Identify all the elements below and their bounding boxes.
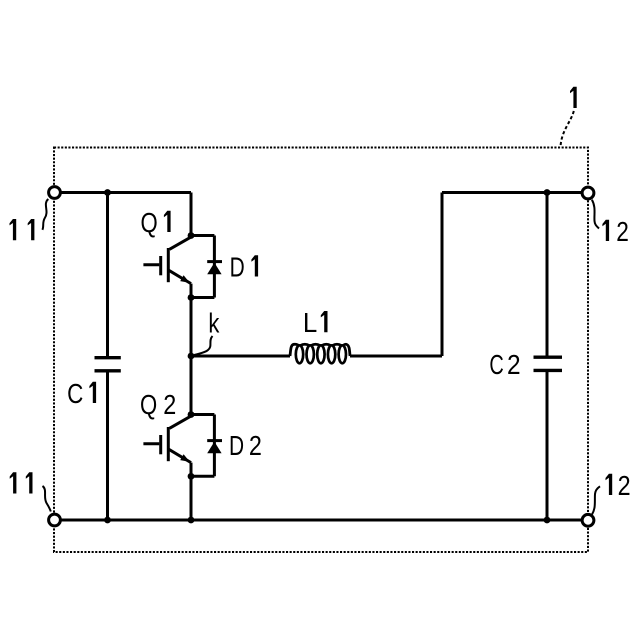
squiggle leader: node k bbox=[193, 336, 213, 356]
wire: Q2 emitter to bottom rail bbox=[190, 463, 193, 520]
squiggle leader: terminal 11 bottom bbox=[43, 486, 51, 512]
terminal 11 bottom (open circle) bbox=[49, 514, 61, 526]
svg-text:C: C bbox=[67, 378, 83, 409]
diode D2 symbol bbox=[207, 441, 222, 454]
D2 triangle bbox=[207, 442, 221, 454]
node: leg bottom on rail bbox=[188, 517, 195, 524]
wire: riser up bbox=[441, 193, 444, 357]
inductor L1 coil arcs bbox=[290, 344, 350, 356]
leader (dashed) from label 1 to box bbox=[561, 111, 574, 148]
svg-text:2: 2 bbox=[618, 470, 631, 501]
wire: top-right rail to terminal 12 bbox=[442, 191, 588, 194]
Q2 body bar bbox=[167, 427, 170, 461]
D1 cathode bar bbox=[207, 260, 222, 263]
squiggle leader: terminal 11 top bbox=[42, 199, 48, 230]
wire: C1 branch lower bbox=[106, 372, 109, 520]
capacitor C1 plates bbox=[95, 358, 121, 371]
svg-text:C: C bbox=[489, 349, 503, 380]
terminal 11 top (open circle) bbox=[49, 187, 61, 199]
D2 cathode bar bbox=[207, 439, 222, 442]
node: Q2 collector / D2 bbox=[188, 411, 195, 418]
Q1 collector diagonal bbox=[170, 237, 191, 249]
svg-text:k: k bbox=[208, 307, 220, 338]
dashed enclosure box (module 1) bbox=[54, 148, 588, 553]
capacitor C2 plates bbox=[534, 357, 563, 370]
svg-text:Q: Q bbox=[140, 389, 157, 420]
squiggle leader: terminal 12 top bbox=[592, 200, 599, 229]
svg-text:Q: Q bbox=[141, 207, 158, 238]
label 11 (top left) bbox=[10, 219, 17, 240]
node: Q2 emitter / D2 bbox=[188, 473, 195, 480]
transistor Q2 (IGBT) bbox=[143, 416, 191, 462]
diode D1 branch wires bbox=[191, 236, 214, 298]
Q1 emitter diagonal bbox=[169, 270, 191, 283]
wire: bottom rail bbox=[55, 519, 588, 522]
Q1 body bar bbox=[167, 248, 170, 282]
Q1 gate lead bbox=[143, 263, 159, 266]
Q1 gate bar bbox=[159, 256, 162, 275]
svg-text:2: 2 bbox=[507, 349, 521, 380]
diode D2 branch wires bbox=[191, 415, 214, 477]
svg-text:2: 2 bbox=[616, 216, 629, 247]
squiggle leader: terminal 12 bottom bbox=[592, 486, 600, 514]
Q2 gate bar bbox=[159, 435, 162, 454]
node: C1 bottom tap bbox=[104, 517, 111, 524]
label 11 (bottom left) bbox=[10, 472, 17, 493]
wire: top-left rail from terminal 11 to Q1 leg bbox=[55, 191, 191, 194]
node: Q1 collector / D1 bbox=[188, 232, 195, 239]
junction node dots bbox=[104, 189, 550, 523]
node: C2 top tap bbox=[544, 189, 551, 196]
terminal 12 bottom (open circle) bbox=[582, 514, 594, 526]
svg-text:D: D bbox=[230, 252, 245, 283]
Q2 emitter diagonal bbox=[169, 449, 191, 462]
label 1 bbox=[570, 87, 577, 108]
svg-text:L: L bbox=[303, 307, 317, 338]
Q2 collector diagonal bbox=[170, 416, 191, 428]
wire: L1 to riser bbox=[350, 355, 442, 358]
D1 triangle bbox=[207, 263, 221, 275]
Q2 emitter arrow bbox=[180, 454, 190, 462]
svg-text:D: D bbox=[229, 430, 244, 461]
wire: C2 branch lower bbox=[546, 372, 549, 520]
wire: C2 branch upper bbox=[546, 193, 549, 356]
node: Q1 emitter / D1 bbox=[188, 294, 195, 301]
wire: Q1 collector drop bbox=[190, 193, 193, 238]
node k junction bbox=[188, 353, 195, 360]
node: C1 top tap bbox=[104, 189, 111, 196]
node: C2 bottom tap bbox=[544, 517, 551, 524]
svg-text:2: 2 bbox=[249, 430, 262, 461]
Q1 emitter arrow bbox=[180, 275, 190, 283]
wire: node k to inductor L1 bbox=[191, 355, 290, 358]
svg-text:2: 2 bbox=[163, 389, 176, 420]
wire: C1 branch upper bbox=[106, 193, 109, 357]
label 12 (top right) bbox=[602, 220, 609, 241]
transistor Q1 (IGBT) bbox=[143, 237, 191, 283]
Q2 gate lead bbox=[143, 442, 159, 445]
wire: Q1 emitter to node k to Q2 collector bbox=[190, 284, 193, 417]
terminal 12 top (open circle) bbox=[582, 187, 594, 199]
label 12 (bottom right) bbox=[606, 474, 613, 495]
diode D1 symbol bbox=[207, 262, 222, 275]
